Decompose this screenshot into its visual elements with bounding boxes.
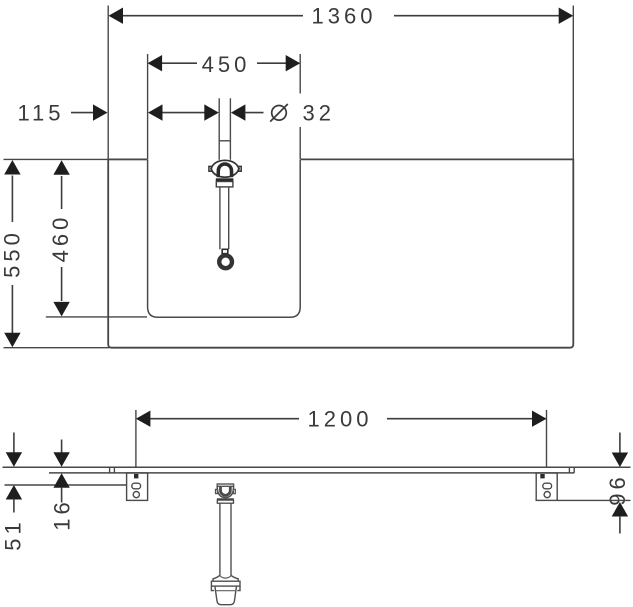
funnel <box>213 575 238 581</box>
slab top line full width <box>3 466 631 468</box>
console outline <box>108 159 573 347</box>
collar <box>216 178 234 181</box>
dimension line between 115 ext and pipe (shared 450/Ø32) <box>161 112 206 114</box>
pipe upper <box>218 98 220 160</box>
inner u arch <box>221 487 231 496</box>
lens shaped fitting <box>211 160 239 177</box>
wire: 96 bottom extension <box>557 499 630 501</box>
dimension 51 <box>13 433 15 454</box>
svg-text:550: 550 <box>0 229 25 278</box>
drain trap (side view) <box>211 484 240 605</box>
ring <box>219 255 232 268</box>
bracket right <box>536 473 557 500</box>
label Ø 32 <box>272 106 287 121</box>
tail pipe <box>219 503 221 575</box>
dimension 96 <box>619 433 621 454</box>
dimension 1200 <box>135 410 137 467</box>
svg-text:16: 16 <box>49 498 74 530</box>
pipe lower <box>219 187 221 249</box>
svg-text:1360: 1360 <box>312 4 377 29</box>
dimension 1360 <box>107 6 109 160</box>
slab ends <box>109 467 111 473</box>
dimension 550 <box>11 176 13 223</box>
wire: bottom extension line left (550) <box>4 347 110 349</box>
dimension 460 <box>61 176 63 209</box>
svg-text:51: 51 <box>1 518 26 550</box>
svg-text:460: 460 <box>48 214 73 263</box>
dimension 450 <box>147 54 149 159</box>
collar below cup <box>217 498 234 500</box>
cup <box>215 586 237 605</box>
svg-text:450: 450 <box>202 52 251 77</box>
svg-text:1200: 1200 <box>308 407 373 432</box>
drain fitting (top view) <box>209 98 241 268</box>
top cap <box>217 484 233 486</box>
wire: top extension line left (550/460) <box>4 158 148 160</box>
slab bottom line with left extension <box>49 472 574 474</box>
wire: 51 bottom extension <box>5 484 127 486</box>
svg-text:32: 32 <box>303 101 335 126</box>
wire: basin bottom extension (460) <box>46 316 147 318</box>
basin cutout <box>148 159 301 317</box>
horseshoe arch <box>218 164 231 177</box>
svg-text:115: 115 <box>17 101 64 126</box>
dimension 16 <box>61 440 63 454</box>
notch <box>222 249 228 253</box>
dimension Ø32 right arrow <box>231 104 246 120</box>
bracket left <box>127 473 148 500</box>
band <box>211 581 240 586</box>
